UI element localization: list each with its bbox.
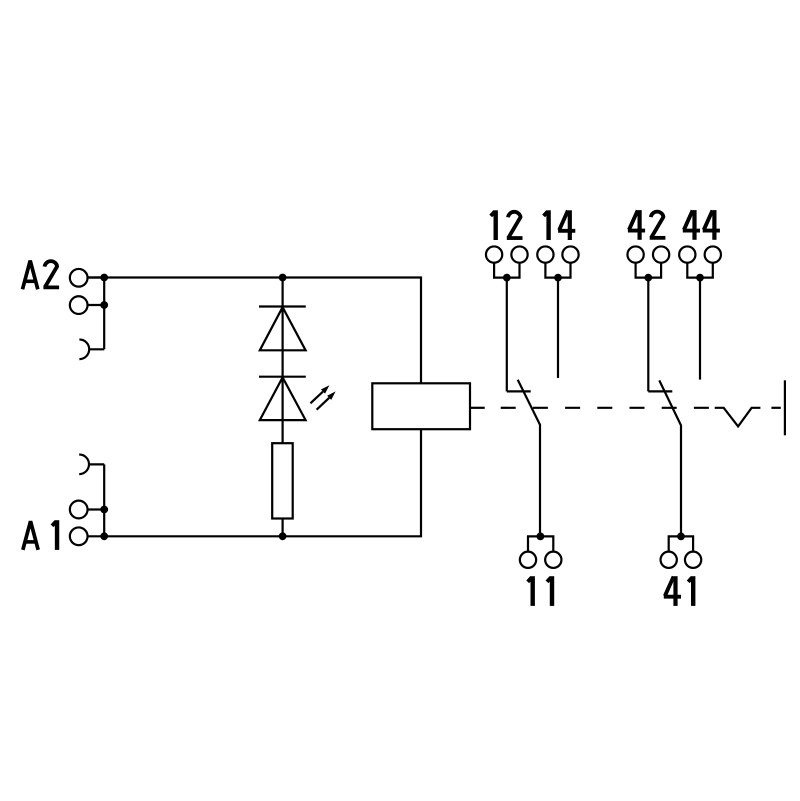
wire diode branch (through diodes) (282, 278, 284, 444)
wire A1 bottom rail (87, 429, 421, 536)
junction A1-1 (100, 506, 108, 514)
wire A2 circle2 to bus (88, 304, 105, 306)
terminal A1 clamp circle 1 (70, 501, 88, 519)
label 41 (664, 576, 693, 606)
terminal A1 clamp circle 2 (70, 527, 88, 545)
terminal 41 circle a (661, 552, 677, 568)
contact blade 41 (659, 380, 681, 536)
wire A2 top rail (87, 278, 421, 384)
terminal 44 bracket (687, 262, 713, 277)
junction 44 (696, 274, 704, 282)
terminal 14 circle a (537, 246, 553, 262)
terminal 42 circle a (627, 246, 643, 262)
label 14 (544, 210, 576, 240)
terminal 44 circle b (705, 246, 721, 262)
terminal 11 bracket (528, 536, 553, 552)
junction top rail / diode branch (279, 274, 287, 282)
terminal 12 bracket (494, 262, 519, 277)
junction bottom rail / resistor branch (279, 532, 287, 540)
LED arrow 2 head (327, 391, 335, 399)
resistor R1 body (272, 443, 293, 518)
relay coil K1 body (372, 383, 470, 429)
wire 42 down (647, 278, 649, 392)
mechanical link last dash (771, 407, 780, 409)
NC contact tick 12 (507, 390, 531, 392)
terminal A2 clamp circle 1 (70, 269, 88, 287)
terminal 41 circle b (685, 552, 701, 568)
terminal 41 bracket (669, 536, 693, 552)
armature bar (784, 380, 786, 435)
diode V1 triangle (260, 307, 306, 350)
terminal 14 circle b (562, 246, 578, 262)
label A1 (23, 520, 57, 550)
jumper hook A2 (79, 340, 104, 360)
junction 11 (537, 533, 545, 541)
LED cathode bar (259, 376, 306, 378)
mechanical link dashed line (501, 407, 709, 409)
junction A2-2 (100, 301, 108, 309)
LED arrow 1 head (321, 385, 329, 393)
terminal 11 circle a (520, 552, 536, 568)
terminal 42 circle b (653, 246, 669, 262)
wire resistor to bottom rail (282, 519, 284, 537)
label 11 (528, 576, 552, 606)
LED arrow 1 shaft (310, 392, 323, 404)
label 12 (491, 210, 523, 240)
coil actuator stub (470, 407, 485, 409)
terminal 42 bracket (636, 262, 662, 277)
junction 42 (644, 274, 652, 282)
terminal 12 circle b (511, 246, 527, 262)
jumper hook A1 (79, 455, 104, 475)
mechanical link V notch (715, 408, 761, 427)
diode V1 cathode bar (259, 305, 306, 307)
label 42 (628, 210, 666, 240)
junction A2-1 (100, 274, 108, 282)
wire A2 vertical bus (103, 278, 105, 350)
wire A1 circle1 to bus (88, 508, 105, 510)
wire 14 down (557, 278, 559, 378)
wire 44 down (699, 278, 701, 380)
terminal 11 circle b (545, 552, 561, 568)
terminal 44 circle a (679, 246, 695, 262)
junction 12 (503, 274, 511, 282)
junction 41 (677, 533, 685, 541)
terminal 14 bracket (545, 262, 570, 277)
wire A1 vertical bus (103, 464, 105, 536)
wire A2 circle1 to bus (88, 276, 105, 278)
label A2 (23, 261, 60, 290)
junction 14 (554, 274, 562, 282)
wire 12 down (506, 278, 508, 392)
junction A1-2 (100, 532, 108, 540)
terminal A2 clamp circle 2 (70, 296, 88, 314)
NC contact tick 42 (648, 390, 672, 392)
contact blade 11 (518, 380, 540, 537)
terminal 12 circle a (486, 246, 502, 262)
label 44 (683, 210, 720, 240)
LED triangle (260, 377, 306, 420)
LED arrow 2 shaft (317, 398, 330, 410)
